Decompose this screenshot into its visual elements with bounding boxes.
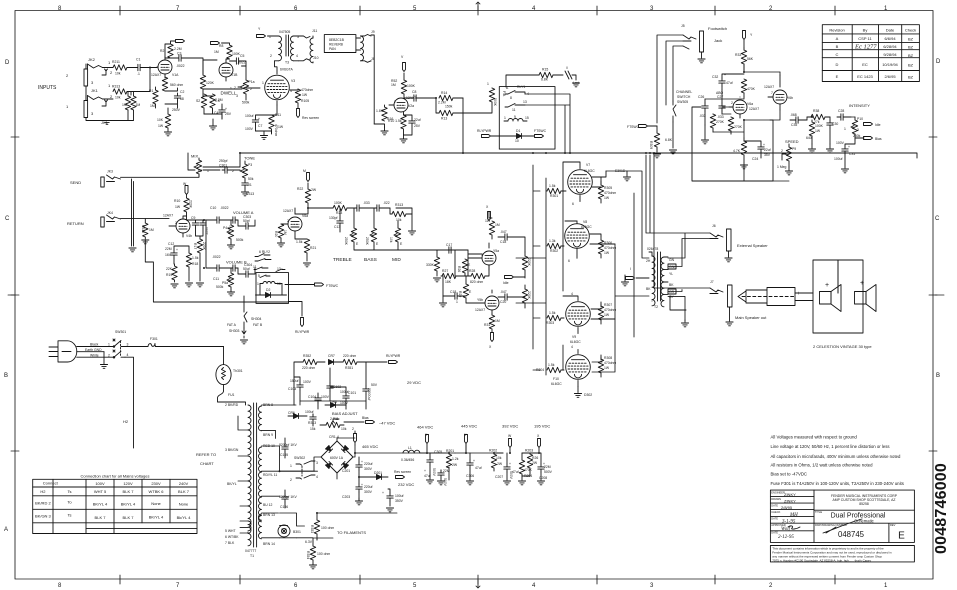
svg-text:10k: 10k: [389, 237, 393, 243]
svg-text:E: E: [376, 242, 379, 246]
ground: [164, 132, 171, 136]
wire V9 plate: [563, 296, 615, 319]
svg-text:048745: 048745: [838, 530, 865, 539]
resistor R33 56K: [735, 48, 754, 72]
svg-text:GN: GN: [669, 258, 675, 262]
svg-text:470ohm: 470ohm: [604, 308, 616, 312]
resistor R23 100K: [333, 201, 354, 215]
svg-text:C12: C12: [168, 242, 174, 246]
jack JK1: [84, 96, 103, 118]
inductor RLY2 coil diode D2: [257, 282, 282, 293]
tube V3 6V6GTA: [250, 68, 295, 106]
ground V2a: [400, 135, 407, 143]
capacitor C304 50uF: [238, 263, 255, 277]
resistor R309 6.8K: [649, 126, 673, 152]
svg-text:350V: 350V: [395, 499, 404, 503]
ground 100uF: [386, 508, 393, 512]
svg-text:PAN: PAN: [329, 47, 336, 51]
svg-text:BRN 9: BRN 9: [263, 433, 273, 437]
svg-text:10k: 10k: [115, 72, 121, 76]
svg-text:3: 3: [857, 128, 859, 132]
switch SW302: [290, 456, 318, 482]
resistor 500K FB: [487, 82, 506, 113]
svg-text:P9: P9: [792, 147, 796, 151]
svg-text:By: By: [863, 28, 868, 33]
svg-text:250pf: 250pf: [219, 159, 228, 163]
svg-text:1W: 1W: [815, 129, 821, 133]
svg-text:SH303: SH303: [229, 329, 239, 333]
svg-text:50pf: 50pf: [243, 219, 250, 223]
svg-text:195 VDC: 195 VDC: [534, 424, 550, 429]
ground V3: [256, 131, 272, 139]
terminal Y to T3: [257, 27, 273, 38]
resistor R307 470ohm 1W: [598, 302, 616, 324]
svg-text:ZINKY: ZINKY: [784, 498, 796, 503]
resistor 330K: [426, 250, 440, 276]
svg-text:15: 15: [525, 116, 529, 120]
svg-text:3: 3: [127, 343, 129, 347]
svg-text:47uf: 47uf: [475, 466, 482, 470]
svg-text:+: +: [797, 291, 800, 297]
svg-text:Bias: Bias: [875, 137, 882, 141]
svg-text:18K: 18K: [445, 280, 452, 284]
svg-text:100V: 100V: [245, 127, 254, 131]
svg-text:R10: R10: [174, 199, 180, 203]
resistor 470K trem: [741, 79, 755, 97]
svg-text:EC: EC: [862, 62, 868, 67]
svg-text:100K: 100K: [334, 201, 343, 205]
svg-text:RLYPWR: RLYPWR: [477, 129, 492, 133]
svg-text:R8: R8: [219, 44, 223, 48]
wire OT to jacks: [646, 155, 710, 320]
svg-text:640: 640: [806, 136, 812, 140]
svg-text:E: E: [400, 242, 403, 246]
wire reverb return long: [371, 35, 375, 124]
relay RLY1 box: [499, 87, 555, 150]
svg-text:R26: R26: [532, 456, 538, 460]
svg-text:R354: R354: [306, 551, 310, 559]
resistor R303 1.5k: [546, 311, 564, 325]
svg-text:.0022: .0022: [220, 206, 229, 210]
svg-text:V: V: [401, 55, 404, 59]
svg-text:2/8/95: 2/8/95: [781, 505, 793, 510]
svg-text:R302: R302: [550, 249, 558, 253]
svg-text:2 CELESTION VINTAGE 30 type: 2 CELESTION VINTAGE 30 type: [813, 344, 872, 349]
svg-text:Y5a: Y5a: [493, 249, 499, 253]
svg-text:B: B: [4, 373, 8, 379]
svg-text:R33: R33: [735, 53, 741, 57]
resistor R305 470ohm 1W: [598, 181, 616, 203]
resistor R308 470ohm 1W: [598, 355, 616, 377]
jack JK3 SEND: [70, 170, 121, 188]
svg-text:1: 1: [230, 87, 232, 91]
svg-text:.0022: .0022: [176, 64, 185, 68]
svg-text:2 BK/RD: 2 BK/RD: [225, 403, 239, 407]
ground FAT: [240, 328, 247, 344]
capacitor 100uF 350V: [382, 489, 404, 506]
resistor 2.2M tail: [215, 98, 223, 102]
terminal RLYPWR supply: [386, 354, 401, 364]
ground P9: [785, 167, 792, 175]
tube V5a: [468, 243, 499, 270]
wire footswitch down: [657, 35, 683, 123]
zone tick top: [120, 6, 835, 15]
wire screen bus: [563, 191, 634, 370]
svg-text:392 VDC: 392 VDC: [502, 424, 518, 429]
svg-text:465 VDC: 465 VDC: [362, 444, 378, 449]
jack J7 main: [710, 280, 732, 307]
svg-text:1M: 1M: [495, 223, 500, 227]
svg-text:V8: V8: [583, 220, 587, 224]
capacitor C10 .0022 volume A: [206, 206, 238, 223]
svg-text:100V: 100V: [303, 380, 312, 384]
svg-text:1: 1: [884, 6, 888, 12]
svg-text:Ec 1277: Ec 1277: [854, 44, 877, 51]
svg-text:+: +: [361, 460, 363, 464]
terminal Y plate V1B: [211, 42, 220, 45]
node INPUTS label: [38, 85, 57, 91]
svg-text:1: 1: [229, 225, 231, 229]
svg-text:X: X: [489, 345, 492, 349]
svg-text:BK/YL 4: BK/YL 4: [93, 502, 108, 507]
svg-text:1.2k: 1.2k: [452, 457, 459, 461]
pot mid 10k: [389, 221, 403, 246]
pot P3 TONE 50k: [240, 156, 255, 182]
svg-text:C1: C1: [136, 58, 140, 62]
svg-text:+: +: [724, 73, 726, 77]
capacitor C8: [404, 90, 436, 101]
svg-text:R18: R18: [192, 262, 198, 266]
jack JK4 RETURN: [67, 211, 121, 227]
resistor R28 820 ohm: [461, 269, 488, 284]
svg-text:R27: R27: [442, 269, 448, 273]
svg-text:2: 2: [287, 219, 289, 223]
terminal RLYPWR vertical: [289, 302, 310, 335]
svg-text:2: 2: [110, 70, 113, 75]
svg-text:Fuse F301 is T4A250V in 100-12: Fuse F301 is T4A250V in 100-120V units, …: [771, 481, 904, 486]
wire R14 to bus: [462, 98, 464, 153]
terminal FTSWC rly2: [285, 283, 339, 288]
capacitor C26 .033: [698, 95, 708, 125]
tube V1B: [219, 60, 238, 81]
resistor R52 100K plate V2a: [391, 73, 416, 98]
tube V7 6L6GC: [568, 163, 596, 207]
switch SW305 channel: [673, 90, 692, 122]
svg-text:+: +: [825, 282, 829, 289]
svg-text:7: 7: [176, 6, 180, 12]
svg-text:12AX7: 12AX7: [749, 107, 759, 111]
transformer T1 core: [254, 403, 257, 547]
svg-text:120K: 120K: [206, 81, 215, 85]
svg-text:2W: 2W: [497, 462, 503, 466]
svg-text:27k: 27k: [814, 120, 820, 124]
wire: [86, 64, 113, 106]
svg-text:Ts: Ts: [68, 489, 72, 494]
capacitor C5 .0022: [230, 54, 247, 66]
svg-text:1: 1: [844, 127, 846, 131]
transformer T1 labels: [225, 403, 277, 558]
svg-text:+: +: [382, 491, 384, 495]
svg-text:250V: 250V: [172, 108, 181, 112]
node INTENSITY: [849, 103, 870, 108]
resistor 270K a: [710, 114, 724, 132]
svg-text:C11: C11: [213, 277, 219, 281]
resistor 560 ohm cathode V1A: [162, 77, 183, 91]
capacitor C206 47uF: [466, 453, 482, 480]
svg-text:BK/YL: BK/YL: [227, 482, 237, 486]
wire 445 rail: [420, 444, 503, 480]
mains labels: [85, 343, 102, 358]
ground R17: [196, 283, 203, 287]
svg-text:100 ohm: 100 ohm: [317, 552, 330, 556]
resistor R20 1M: [274, 224, 287, 242]
capacitor .033 tone: [354, 201, 374, 211]
ground P4a: [227, 243, 234, 249]
svg-text:232 VDC: 232 VDC: [398, 482, 414, 487]
svg-text:2: 2: [234, 86, 236, 90]
svg-text:100uf: 100uf: [245, 114, 254, 118]
tube V1A: [151, 57, 179, 78]
svg-text:R203: R203: [525, 449, 533, 453]
svg-text:Rev screen: Rev screen: [302, 116, 319, 120]
revision table: [822, 25, 919, 82]
zone numbers top: [58, 6, 888, 12]
svg-text:RLYPWR: RLYPWR: [386, 354, 401, 358]
svg-text:1 Meg: 1 Meg: [777, 165, 787, 169]
svg-text:22M: 22M: [165, 247, 172, 251]
relay RLY1 contacts: [505, 85, 529, 119]
svg-text:25V: 25V: [225, 112, 232, 116]
svg-text:R313: R313: [112, 85, 120, 89]
node SPEED: [785, 139, 799, 144]
zone tick bottom: [120, 575, 835, 584]
transformer T1 secondary: [259, 406, 262, 539]
svg-text:1: 1: [290, 464, 292, 468]
jack J5 footswitch: [681, 24, 704, 52]
svg-text:C2: C2: [180, 90, 184, 94]
svg-text:R22: R22: [297, 187, 303, 191]
svg-text:13: 13: [523, 100, 527, 104]
svg-text:270K: 270K: [734, 125, 743, 129]
svg-text:C35: C35: [791, 123, 797, 127]
capacitor 130pF: [329, 208, 343, 232]
terminal Idle: [503, 276, 525, 286]
svg-text:C32: C32: [712, 75, 718, 79]
svg-text:BK/YL 4: BK/YL 4: [149, 515, 164, 520]
svg-text:+: +: [509, 462, 511, 466]
speaker cabinet: [795, 260, 863, 333]
svg-text:C9: C9: [191, 216, 195, 220]
svg-text:6L6GC: 6L6GC: [584, 169, 595, 173]
svg-text:White: White: [90, 354, 99, 358]
svg-text:R14: R14: [441, 91, 447, 95]
svg-text:50k: 50k: [248, 177, 254, 181]
svg-text:500K: 500K: [493, 98, 497, 107]
svg-text:1W: 1W: [604, 196, 610, 200]
tube V9 6L6GC: [566, 292, 591, 344]
thermistor TH301: [216, 347, 243, 392]
svg-text:Idle: Idle: [875, 123, 881, 127]
terminal V above V2a: [401, 55, 406, 72]
svg-text:6/6/94: 6/6/94: [884, 36, 896, 41]
resistor R16 1.8K: [374, 105, 393, 127]
svg-text:4: 4: [532, 6, 536, 12]
relay RLY2 contacts: [253, 254, 285, 279]
svg-text:1: 1: [884, 583, 888, 589]
svg-text:MID: MID: [392, 257, 401, 263]
ground: [86, 110, 134, 124]
svg-text:2: 2: [250, 87, 252, 91]
svg-text:C13: C13: [334, 225, 340, 229]
ground R20: [277, 243, 284, 247]
capacitor C7 100uF 100V: [245, 114, 272, 131]
svg-text:100V: 100V: [340, 401, 349, 405]
tube V6a: [283, 208, 308, 237]
svg-text:C8: C8: [412, 90, 416, 94]
svg-text:P2: P2: [198, 169, 202, 173]
capacitor 22uF 500V mid: [438, 469, 450, 487]
svg-text:GN/: GN/: [669, 265, 675, 269]
svg-text:BZ: BZ: [908, 37, 914, 42]
svg-text:BZ: BZ: [908, 45, 914, 50]
svg-text:6: 6: [294, 6, 298, 12]
svg-text:Bk/YL 4: Bk/YL 4: [177, 515, 192, 520]
terminal FTSWC left: [627, 125, 657, 130]
svg-text:M: M: [303, 169, 306, 173]
svg-text:3-1-95: 3-1-95: [782, 520, 796, 525]
svg-text:1M: 1M: [283, 230, 287, 235]
capacitor C202 220uF 300V: [342, 478, 373, 500]
rectifier CR1-4: [321, 435, 353, 473]
approval signature scribble: [788, 519, 862, 533]
svg-text:V7: V7: [586, 163, 590, 167]
resistor 1M PI: [485, 212, 500, 239]
svg-text:1: 1: [108, 83, 111, 88]
svg-text:E: E: [898, 531, 905, 542]
svg-text:464 VDC: 464 VDC: [417, 425, 433, 430]
svg-text:2: 2: [731, 101, 733, 105]
svg-text:B301: B301: [293, 530, 301, 534]
svg-text:.022: .022: [383, 201, 390, 205]
svg-text:1W: 1W: [604, 366, 610, 370]
node 6.3V: [305, 540, 313, 544]
svg-text:E: E: [356, 242, 359, 246]
svg-text:FU1: FU1: [228, 393, 235, 397]
ground 330K: [433, 278, 440, 282]
phone plug: [738, 288, 800, 306]
svg-text:1M: 1M: [149, 228, 154, 232]
svg-text:Wolf: Wolf: [781, 527, 791, 532]
node VOLUME A: [233, 210, 254, 215]
svg-text:BLK 7: BLK 7: [123, 515, 135, 520]
svg-text:SH304: SH304: [251, 317, 261, 321]
lamp B301 pilot: [278, 525, 301, 537]
svg-text:D: D: [836, 62, 839, 67]
svg-text:V6a: V6a: [747, 102, 753, 106]
svg-text:100V: 100V: [95, 481, 105, 486]
svg-text:DATE: DATE: [771, 503, 778, 507]
svg-text:INPUTS: INPUTS: [38, 85, 57, 91]
svg-text:15k: 15k: [310, 427, 316, 431]
capacitor C17: [446, 243, 468, 253]
svg-text:1W: 1W: [302, 93, 308, 97]
svg-text:V2a: V2a: [408, 104, 414, 108]
transformer T1 primary: [248, 405, 251, 546]
svg-text:150k: 150k: [445, 105, 453, 109]
fuse F301: [125, 337, 224, 347]
svg-text:6/28/94: 6/28/94: [883, 44, 897, 49]
svg-text:C101: C101: [348, 391, 356, 395]
svg-text:C106: C106: [280, 505, 288, 509]
resistor R15 6.8K: [506, 68, 553, 88]
ground C18b: [439, 296, 446, 307]
svg-text:220K: 220K: [202, 242, 206, 251]
svg-text:ENGINEER: ENGINEER: [771, 490, 785, 494]
resistor R313b 10k: [390, 203, 412, 222]
svg-text:C7: C7: [258, 124, 262, 128]
svg-text:8: 8: [58, 583, 62, 589]
svg-text:R308: R308: [604, 356, 612, 360]
resistor R30 100K: [806, 120, 824, 144]
svg-text:FTSWC: FTSWC: [326, 284, 339, 288]
wire V6a plate to tone: [295, 208, 333, 214]
tube V10 6L6GC: [551, 345, 590, 387]
resistor R17 220K: [193, 236, 206, 281]
svg-text:29 VDC: 29 VDC: [407, 380, 421, 385]
svg-text:470K: 470K: [747, 87, 756, 91]
svg-text:4: 4: [571, 292, 573, 296]
svg-text:Footswitch: Footswitch: [708, 26, 727, 31]
svg-text:8: 8: [510, 96, 512, 100]
svg-text:2: 2: [110, 94, 113, 99]
svg-text:BZ: BZ: [908, 53, 914, 58]
svg-text:250k: 250k: [853, 134, 861, 138]
svg-text:1: 1: [108, 60, 111, 65]
ground C202: [355, 498, 362, 505]
svg-text:11: 11: [253, 265, 257, 269]
ground D302: [574, 387, 592, 398]
resistor R301 1.5k: [547, 184, 566, 198]
svg-text:C203: C203: [342, 495, 350, 499]
inductor L1 choke: [401, 446, 420, 462]
svg-text:To: To: [67, 500, 72, 505]
ground trem right: [808, 144, 848, 173]
svg-text:FTSWC: FTSWC: [627, 125, 640, 129]
mains plug: [49, 341, 114, 362]
capacitor C11 .0022 volume B: [206, 220, 238, 285]
capacitor C303 50pF: [238, 215, 255, 229]
svg-text:I: I: [630, 267, 631, 271]
svg-text:R28: R28: [469, 269, 475, 273]
svg-text:C31: C31: [849, 152, 855, 156]
svg-text:047505: 047505: [279, 30, 290, 34]
resistor R38 27k: [807, 109, 830, 124]
svg-text:Check: Check: [905, 28, 916, 33]
svg-text:2: 2: [66, 73, 69, 78]
capacitor C102: [327, 368, 341, 401]
terminal Z center tap: [626, 267, 650, 280]
svg-text:Line voltage at 120V, 50/60 Hz: Line voltage at 120V, 50/60 Hz, 1 percen…: [771, 444, 890, 449]
reverb pan box: [324, 35, 356, 53]
svg-text:TONE: TONE: [244, 156, 255, 161]
svg-text:C: C: [935, 216, 940, 222]
svg-text:T1: T1: [250, 554, 254, 558]
svg-text:BIAS ADJUST: BIAS ADJUST: [332, 411, 358, 416]
resistor R313 10k: [112, 85, 127, 100]
svg-text:J9: J9: [371, 30, 375, 34]
wire relay to right bus: [525, 94, 570, 153]
svg-text:C18: C18: [450, 290, 456, 294]
